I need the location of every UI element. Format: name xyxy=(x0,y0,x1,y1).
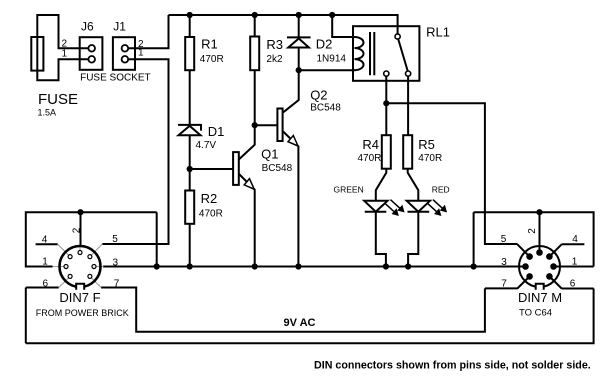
svg-text:3: 3 xyxy=(501,257,507,268)
svg-text:1: 1 xyxy=(61,49,67,60)
svg-text:BC548: BC548 xyxy=(310,103,341,114)
svg-text:1: 1 xyxy=(138,48,144,59)
svg-text:D2: D2 xyxy=(316,37,333,52)
svg-text:RL1: RL1 xyxy=(426,25,450,40)
svg-text:GREEN: GREEN xyxy=(334,184,364,194)
svg-text:5: 5 xyxy=(501,234,507,245)
svg-text:470R: 470R xyxy=(418,153,442,164)
svg-text:470R: 470R xyxy=(358,153,382,164)
svg-text:DIN connectors shown from pins: DIN connectors shown from pins side, not… xyxy=(314,360,591,372)
svg-text:470R: 470R xyxy=(199,209,223,220)
svg-text:TO C64: TO C64 xyxy=(519,308,552,319)
svg-text:1.5A: 1.5A xyxy=(38,108,57,118)
svg-text:3: 3 xyxy=(113,258,119,269)
svg-text:DIN7 M: DIN7 M xyxy=(518,290,562,305)
svg-text:1N914: 1N914 xyxy=(317,54,347,65)
svg-text:1: 1 xyxy=(572,257,578,268)
svg-text:Q1: Q1 xyxy=(261,147,278,162)
svg-text:R3: R3 xyxy=(266,37,283,52)
svg-text:R1: R1 xyxy=(201,36,218,51)
svg-text:D1: D1 xyxy=(208,124,225,139)
svg-text:2: 2 xyxy=(72,227,83,233)
svg-text:R2: R2 xyxy=(201,191,218,206)
svg-text:Q2: Q2 xyxy=(310,87,327,102)
svg-text:R5: R5 xyxy=(418,137,435,152)
svg-text:2k2: 2k2 xyxy=(266,54,283,65)
svg-text:7: 7 xyxy=(501,279,507,290)
svg-text:J1: J1 xyxy=(113,19,126,33)
svg-text:4: 4 xyxy=(572,234,578,245)
svg-text:470R: 470R xyxy=(200,54,224,65)
svg-text:FROM POWER BRICK: FROM POWER BRICK xyxy=(36,308,129,318)
svg-text:9V AC: 9V AC xyxy=(284,317,316,329)
svg-text:4.7V: 4.7V xyxy=(196,140,217,151)
svg-text:DIN7 F: DIN7 F xyxy=(59,290,100,305)
svg-text:6: 6 xyxy=(43,279,49,290)
svg-text:4: 4 xyxy=(42,235,48,246)
svg-text:1: 1 xyxy=(42,257,48,268)
svg-text:5: 5 xyxy=(112,234,118,245)
svg-text:FUSE SOCKET: FUSE SOCKET xyxy=(80,72,151,83)
svg-text:BC548: BC548 xyxy=(262,163,293,174)
svg-text:FUSE: FUSE xyxy=(38,91,78,108)
svg-text:RED: RED xyxy=(432,185,450,195)
svg-text:R4: R4 xyxy=(362,137,379,152)
svg-text:2: 2 xyxy=(527,228,538,234)
svg-text:7: 7 xyxy=(114,279,120,290)
svg-text:J6: J6 xyxy=(81,19,94,33)
svg-text:6: 6 xyxy=(570,279,576,290)
